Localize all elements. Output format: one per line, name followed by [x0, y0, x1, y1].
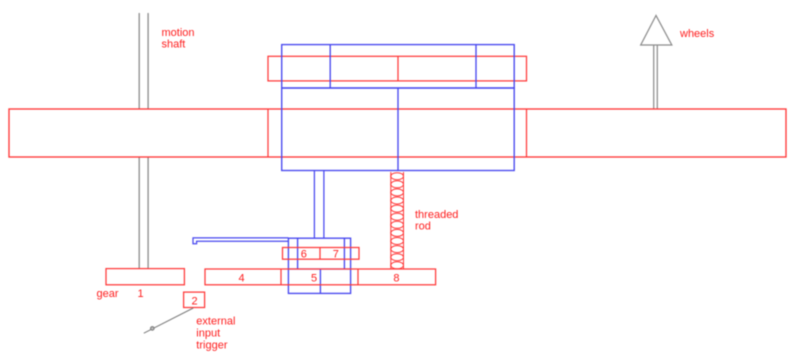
svg-text:8: 8	[393, 272, 399, 284]
blue arm with hook	[193, 238, 288, 244]
svg-text:wheels: wheels	[679, 28, 715, 40]
svg-text:7: 7	[333, 248, 339, 260]
gear bar	[106, 269, 184, 285]
svg-text:gear: gear	[97, 288, 119, 300]
wheels shaft	[654, 45, 658, 109]
top red bar	[268, 56, 527, 81]
blue rod	[314, 171, 324, 239]
svg-text:external: external	[196, 316, 235, 328]
wheels triangle	[641, 16, 672, 46]
svg-text:shaft: shaft	[162, 38, 186, 50]
svg-text:rod: rod	[415, 221, 431, 233]
svg-text:threaded: threaded	[415, 209, 458, 221]
bar 6/7	[283, 248, 360, 260]
beam divider left	[267, 109, 269, 157]
top blue box	[282, 45, 515, 88]
trigger line	[144, 308, 194, 333]
carriage blue box	[288, 238, 350, 293]
svg-text:6: 6	[301, 248, 307, 260]
svg-text:motion: motion	[162, 27, 195, 39]
svg-text:1: 1	[138, 288, 144, 300]
main blue box	[282, 88, 515, 171]
threaded rod coil	[391, 172, 404, 269]
bars 4 5 8	[205, 269, 436, 285]
svg-text:input: input	[196, 328, 220, 340]
svg-text:2: 2	[191, 295, 197, 307]
svg-text:5: 5	[311, 272, 317, 284]
trigger pivot circle	[151, 327, 155, 331]
motion shaft	[139, 13, 148, 269]
box 2	[184, 292, 205, 307]
svg-text:4: 4	[239, 272, 245, 284]
top red bar divider	[397, 56, 399, 81]
main beam	[9, 109, 786, 157]
beam divider right	[526, 109, 528, 157]
svg-text:trigger: trigger	[196, 340, 228, 352]
